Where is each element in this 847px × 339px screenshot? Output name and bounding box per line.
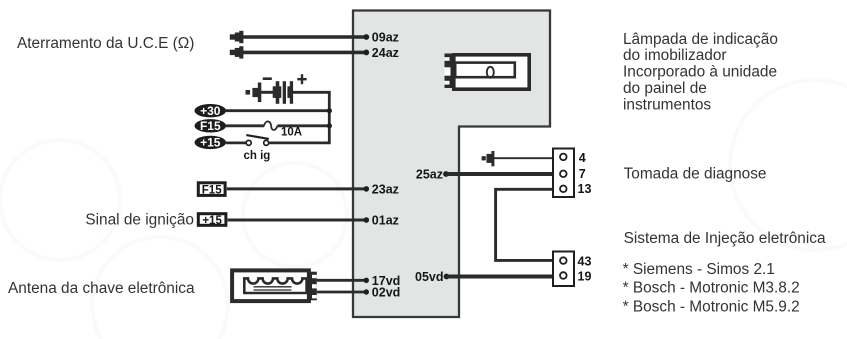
terminal box +15 [198,214,226,227]
watermark [0,80,847,339]
wire 23az [227,186,369,192]
supply terminal +15 [195,136,227,150]
svg-text:* Bosch - Motronic M3.8.2: * Bosch - Motronic M3.8.2 [623,280,800,297]
battery minus sign [263,77,272,80]
svg-text:01az: 01az [372,214,399,228]
wire 09az [242,34,369,40]
svg-text:do imobilizador: do imobilizador [623,47,727,64]
svg-text:Sistema de Injeção eletrônica: Sistema de Injeção eletrônica [624,230,826,247]
svg-text:25az: 25az [416,167,443,181]
battery B1 [273,81,293,104]
battery plus sign [297,74,306,84]
svg-text:05vd: 05vd [415,270,444,284]
svg-text:02vd: 02vd [372,286,401,300]
svg-text:F15: F15 [200,119,221,133]
svg-text:Antena da chave eletrônica: Antena da chave eletrônica [8,280,195,297]
wire 05vd to pin 19 [444,274,552,280]
ground arrow battery [246,83,262,103]
wire +30 to bus [226,109,331,112]
supply terminal +30 [195,104,227,118]
svg-text:do painel de: do painel de [623,80,707,97]
svg-text:Tomada de diagnose: Tomada de diagnose [624,166,767,183]
lamp L1 indicator (instrument cluster) [445,54,530,90]
wire +15 to switch [226,141,246,144]
svg-text:F15: F15 [202,184,222,196]
svg-text:7: 7 [579,167,586,181]
text lamp annotation [623,31,778,114]
svg-text:+30: +30 [200,104,221,118]
wire battery to bus [293,91,331,94]
wire 17vd [317,278,369,283]
wire 02vd [317,289,369,294]
wire ground to battery [261,91,274,94]
ground arrow pin 4 [482,151,495,166]
fuse box label F15 [198,183,225,197]
wire pin 4 [494,157,553,159]
svg-text:+15: +15 [202,215,222,227]
svg-text:+15: +15 [200,136,221,150]
switch S1 ignition [246,135,269,145]
svg-text:43: 43 [578,254,592,268]
wire switch to bus [269,141,331,144]
ground arrow 09az [230,31,244,43]
wire 24az [242,50,369,56]
svg-text:Incorporado à unidade: Incorporado à unidade [623,64,777,81]
svg-text:24az: 24az [372,46,399,60]
svg-text:Aterramento da U.C.E (Ω): Aterramento da U.C.E (Ω) [17,35,194,52]
svg-text:13: 13 [578,182,592,196]
wire pin 13 to pin 43 [496,189,552,260]
svg-text:Lâmpada de indicação: Lâmpada de indicação [623,31,778,48]
svg-text:4: 4 [579,151,586,165]
connector X1 diagnose [553,149,574,198]
wire F15 to fuse [226,124,264,127]
svg-text:* Bosch - Motronic M5.9.2: * Bosch - Motronic M5.9.2 [623,298,800,315]
antenna A1 transponder coil [232,270,317,301]
node bus wire [328,92,331,143]
fuse terminal F15 [195,119,227,133]
junction node +30/bus [327,108,332,113]
wire 01az [228,217,370,223]
wire fuse to bus [277,124,330,127]
svg-text:ch ig: ch ig [244,150,271,162]
ground arrow 24az [230,46,244,58]
ECU module box [353,11,550,318]
svg-text:19: 19 [578,270,592,284]
svg-text:10A: 10A [281,127,302,139]
connector X2 injection [553,252,574,287]
wire 25az to pin 7 [443,171,552,177]
svg-text:instrumentos: instrumentos [623,96,711,113]
svg-text:23az: 23az [372,183,399,197]
svg-text:Sinal de ignição: Sinal de ignição [85,212,194,229]
junction node F15/bus [327,123,332,128]
fuse F1 10A [264,121,278,130]
text injection list [623,261,800,315]
svg-text:* Siemens - Simos 2.1: * Siemens - Simos 2.1 [623,261,775,278]
svg-text:09az: 09az [372,31,399,45]
